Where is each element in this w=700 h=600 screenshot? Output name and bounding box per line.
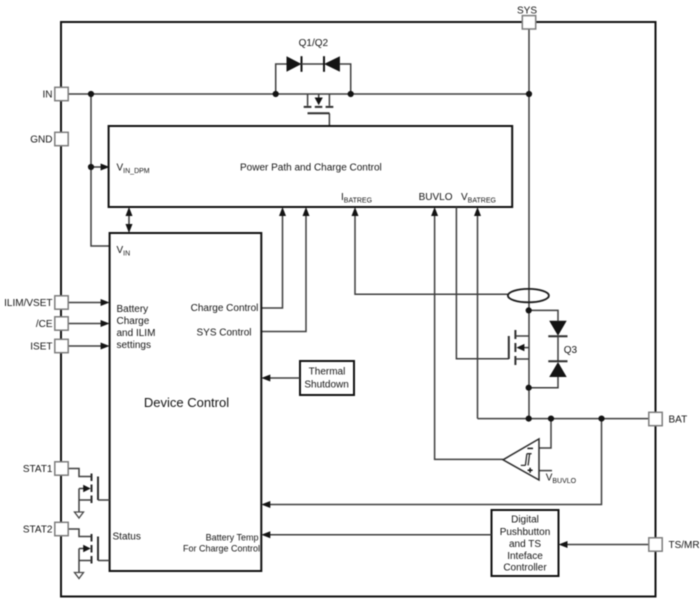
svg-text:Device Control: Device Control	[144, 395, 229, 410]
diode Q2	[323, 56, 325, 72]
node IN junction	[88, 91, 94, 97]
svg-text:IN: IN	[43, 90, 53, 101]
wire IN branch down to VIN_DPM and VIN	[91, 94, 110, 246]
wire IN rail	[68, 93, 529, 95]
wire ILIM/VSET input	[68, 302, 102, 304]
node VIN_DPM tap	[88, 164, 94, 170]
diode Q1	[287, 56, 302, 72]
ellipse current sense	[508, 289, 549, 302]
svg-text:BUVLO: BUVLO	[419, 192, 453, 203]
node Q1/Q2 left	[273, 91, 279, 97]
svg-text:STAT1: STAT1	[23, 464, 53, 475]
svg-text:Power Path and Charge Control: Power Path and Charge Control	[240, 163, 382, 174]
wire between Q3 diodes	[557, 336, 559, 361]
wire Q3 diode branch bottom	[529, 377, 558, 388]
wire /CE input	[68, 323, 102, 325]
svg-text:Battery: Battery	[117, 304, 149, 315]
svg-text:TS/MR: TS/MR	[669, 540, 700, 551]
node Q3 drain branch	[526, 307, 532, 313]
wire VIN_DPM input	[91, 166, 101, 168]
pin ILIM/VSET	[55, 296, 68, 309]
wire Q3 gate drive from power path	[456, 207, 508, 359]
svg-text:Shutdown: Shutdown	[304, 380, 348, 391]
pin ISET	[55, 339, 68, 352]
ground STAT2	[75, 573, 84, 579]
node Q3-BAT junction	[526, 416, 532, 422]
svg-text:SYS Control: SYS Control	[196, 328, 251, 339]
svg-text:Charge Control: Charge Control	[191, 303, 259, 314]
svg-text:Status: Status	[113, 532, 141, 543]
diode Q3 body bottom	[548, 360, 567, 362]
wire BUVLO from comparator output	[435, 216, 503, 459]
wire TS/MR to digital controller	[567, 544, 649, 546]
pin TS/MR	[649, 538, 662, 551]
wire comparator plus stub VBUVLO	[539, 470, 552, 472]
wire VBATREG sense from BAT	[477, 216, 479, 419]
wire Charge Control to power path	[261, 216, 282, 308]
wire BAT rail	[478, 418, 650, 420]
pin GND	[55, 132, 68, 145]
svg-text:BAT: BAT	[669, 415, 688, 426]
svg-text:Charge: Charge	[117, 316, 150, 327]
transistor Q3	[509, 330, 516, 365]
svg-text:STAT2: STAT2	[23, 525, 53, 536]
wire Q3 diode branch top	[529, 310, 558, 320]
pin STAT2	[55, 522, 68, 535]
pin STAT1	[55, 462, 68, 475]
svg-text:Thermal: Thermal	[309, 367, 346, 378]
svg-text:For Charge Control: For Charge Control	[183, 544, 260, 554]
svg-text:Battery Temp: Battery Temp	[206, 533, 259, 543]
transistor power FET (IN-SYS)	[308, 94, 330, 126]
wire double arrow between power path and device control	[128, 209, 130, 231]
wire ISET input	[68, 345, 102, 347]
wire between Q1 and Q2	[302, 63, 325, 65]
svg-text:Q1/Q2: Q1/Q2	[299, 38, 329, 49]
svg-text:and TS: and TS	[509, 539, 541, 550]
wire thermal shutdown to device control	[270, 377, 300, 379]
wire SYS Control to power path	[261, 216, 306, 332]
svg-text:Controller: Controller	[503, 563, 547, 574]
node BAT feedback tap	[598, 416, 604, 422]
pin /CE	[55, 317, 68, 330]
wire Q1/Q2 left riser	[276, 64, 287, 94]
box Digital Pushbutton and TS Inteface Controller	[492, 510, 559, 576]
transistor STAT1	[68, 469, 92, 477]
box Power Path and Charge Control	[109, 126, 513, 207]
wire BAT feedback to device control	[270, 419, 602, 505]
node Q3 source branch	[526, 385, 532, 391]
svg-text:SYS: SYS	[517, 6, 537, 17]
wire battery temp to device control	[270, 534, 492, 536]
svg-text:Q3: Q3	[564, 345, 578, 356]
pin BAT	[649, 412, 662, 425]
svg-text:Inteface: Inteface	[507, 551, 543, 562]
pin SYS	[522, 16, 535, 29]
ground STAT1	[75, 512, 84, 518]
pin IN	[55, 87, 68, 100]
svg-text:Digital: Digital	[511, 515, 539, 526]
node SYS-IN junction	[526, 91, 532, 97]
wire SYS vertical rail	[528, 29, 530, 419]
box Device Control	[110, 233, 262, 571]
node comparator tap	[548, 416, 554, 422]
svg-text:GND: GND	[30, 135, 52, 146]
comparator plus sign	[528, 468, 533, 473]
op-amp BUVLO comparator	[503, 439, 539, 480]
comparator hysteresis symbol	[521, 454, 532, 466]
svg-text:Pushbutton: Pushbutton	[500, 527, 551, 538]
wire comparator minus input from BAT	[539, 419, 551, 448]
box Thermal Shutdown	[300, 361, 354, 395]
node Q1/Q2 right	[348, 91, 354, 97]
diode Q3 body top	[549, 321, 567, 336]
transistor STAT2	[68, 529, 92, 537]
wire IBATREG sense from ellipse	[355, 216, 508, 294]
svg-text:ISET: ISET	[30, 342, 52, 353]
svg-text:and ILIM: and ILIM	[117, 328, 156, 339]
comparator minus sign	[527, 447, 533, 449]
wire Q1/Q2 right riser	[340, 64, 351, 94]
svg-text:settings: settings	[117, 340, 151, 351]
svg-text:/CE: /CE	[36, 319, 53, 330]
svg-text:ILIM/VSET: ILIM/VSET	[4, 298, 52, 309]
